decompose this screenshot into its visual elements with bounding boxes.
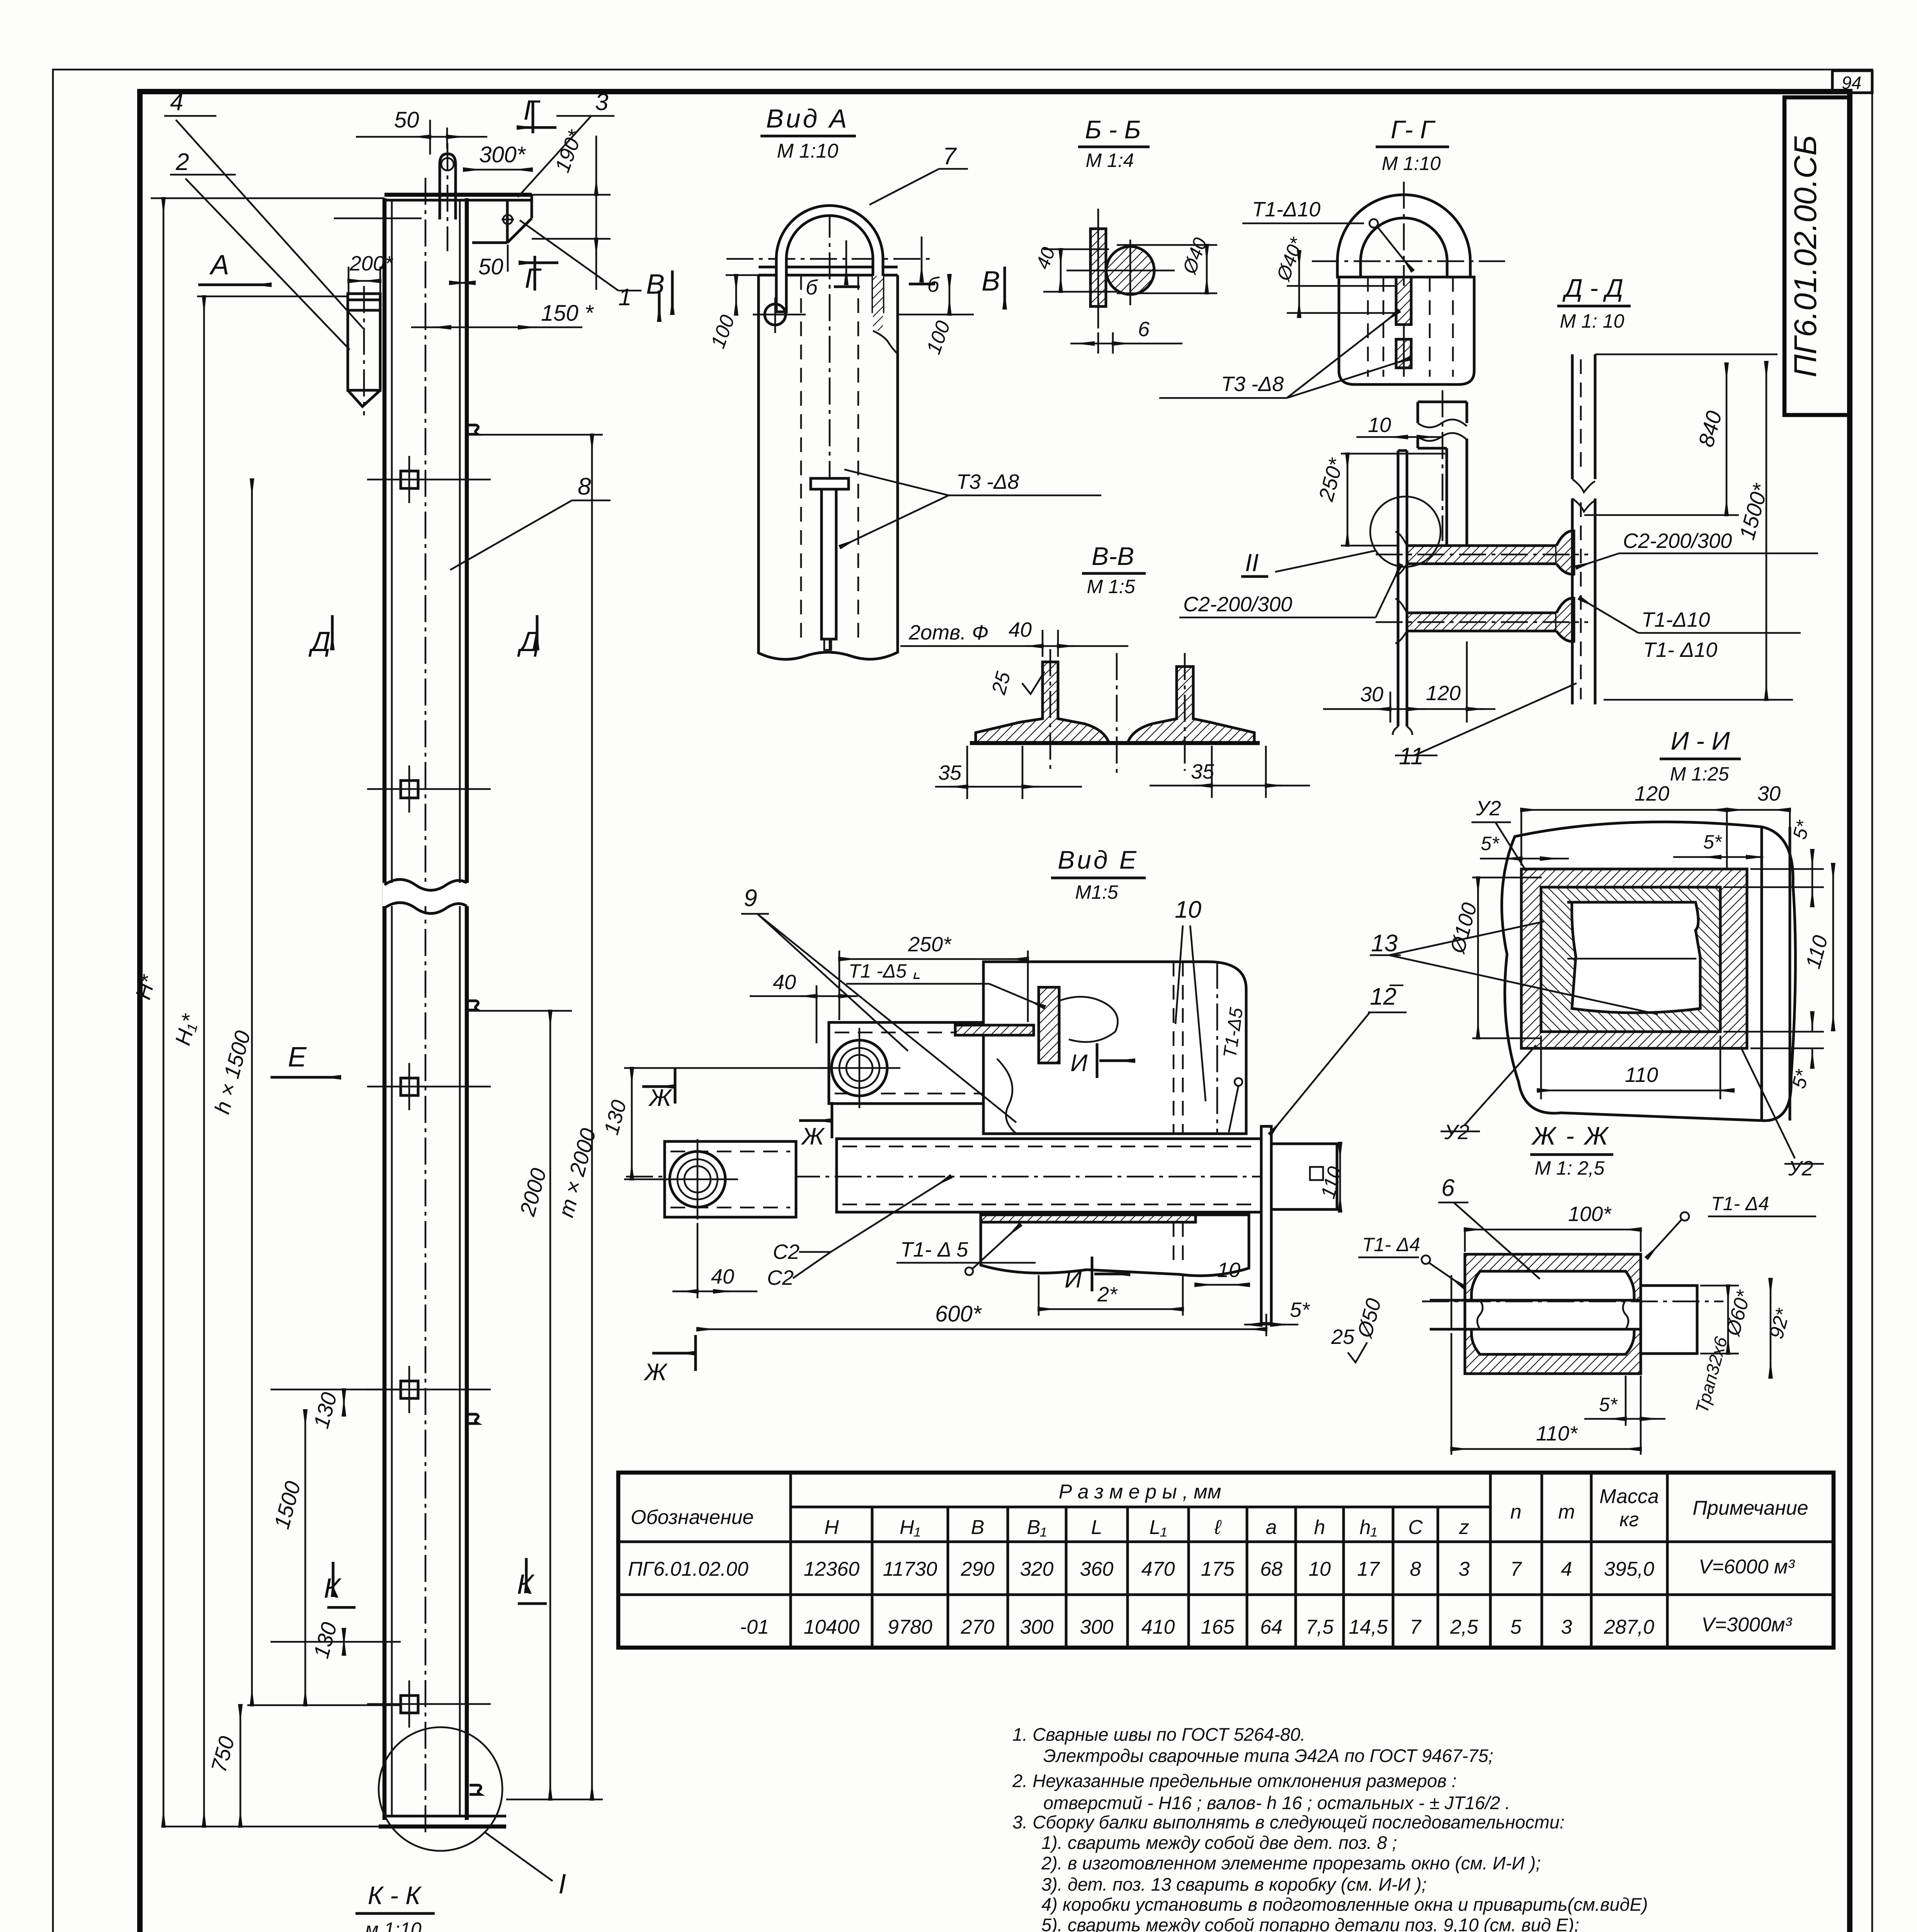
svg-text:Д - Д: Д - Д: [1562, 274, 1623, 302]
svg-text:68: 68: [1260, 1558, 1283, 1580]
svg-text:Ж: Ж: [648, 1085, 672, 1111]
svg-text:64: 64: [1260, 1616, 1283, 1638]
svg-text:1: 1: [618, 284, 631, 311]
dims: [1595, 354, 1778, 355]
svg-text:4: 4: [1561, 1558, 1572, 1580]
svg-text:Ж: Ж: [643, 1359, 668, 1386]
svg-text:470: 470: [1141, 1558, 1175, 1580]
svg-text:10: 10: [1308, 1558, 1331, 1580]
beam break (interruption): [383, 883, 469, 906]
svg-text:В: В: [971, 1516, 985, 1539]
svg-text:II: II: [1245, 549, 1259, 577]
svg-text:10: 10: [1175, 896, 1201, 923]
svg-text:600*: 600*: [935, 1301, 982, 1327]
beam bottom plate: [384, 1815, 506, 1818]
top small bracket: [1417, 402, 1419, 423]
svg-text:9780: 9780: [888, 1616, 932, 1638]
svg-text:Т1- Δ4: Т1- Δ4: [1362, 1234, 1420, 1255]
svg-text:Ж: Ж: [801, 1123, 825, 1150]
svg-text:3: 3: [1561, 1616, 1572, 1638]
svg-text:а: а: [1266, 1516, 1277, 1539]
svg-text:200*: 200*: [349, 252, 393, 275]
hole: [765, 304, 786, 325]
svg-text:h: h: [1314, 1516, 1325, 1539]
svg-text:2. Неуказанные предельные откл: 2. Неуказанные предельные отклонения раз…: [1012, 1770, 1457, 1791]
svg-text:Д: Д: [308, 626, 331, 657]
svg-text:Примечание: Примечание: [1692, 1497, 1808, 1519]
svg-text:395,0: 395,0: [1604, 1558, 1654, 1580]
svg-text:40: 40: [773, 971, 796, 994]
left stub: [1451, 1275, 1453, 1329]
dimension lines left of beam: [151, 198, 401, 1827]
svg-text:V=3000м³: V=3000м³: [1701, 1614, 1792, 1636]
svg-text:3: 3: [1459, 1558, 1470, 1580]
svg-text:Т1-Δ10: Т1-Δ10: [1252, 198, 1320, 221]
outer hatched frame: [1521, 869, 1747, 1048]
svg-text:320: 320: [1020, 1558, 1054, 1580]
svg-text:М 1:25: М 1:25: [1670, 763, 1729, 785]
svg-text:270: 270: [961, 1616, 995, 1638]
svg-text:В: В: [981, 266, 1000, 297]
svg-text:Т1-Δ10: Т1-Δ10: [1641, 608, 1710, 631]
svg-text:8: 8: [1410, 1558, 1421, 1580]
svg-text:250*: 250*: [908, 933, 952, 956]
nut body: [1465, 1254, 1641, 1374]
svg-text:6: 6: [1138, 318, 1150, 341]
svg-text:ПГ6.01.02.00.СБ: ПГ6.01.02.00.СБ: [1788, 135, 1823, 378]
svg-text:3). дет. поз. 13 сварить в кор: 3). дет. поз. 13 сварить в коробку (см. …: [1041, 1874, 1427, 1895]
hidden lines: [800, 275, 802, 641]
svg-text:Г: Г: [525, 263, 542, 294]
svg-text:25: 25: [1331, 1325, 1355, 1349]
svg-text:12360: 12360: [804, 1558, 860, 1580]
svg-text:2*: 2*: [1097, 1283, 1118, 1306]
T-bar TZ-D8: [811, 478, 849, 489]
svg-text:n: n: [1510, 1501, 1522, 1523]
right plate 12 + shaft end: [1261, 1126, 1271, 1323]
svg-text:Т3 -Δ8: Т3 -Δ8: [1221, 372, 1284, 396]
I-beam flanges: [1407, 546, 1556, 564]
svg-text:120: 120: [1635, 782, 1669, 805]
svg-text:30: 30: [1360, 683, 1383, 706]
label 7: [869, 169, 939, 205]
svg-text:б: б: [806, 276, 818, 299]
svg-text:В₁: В₁: [1027, 1516, 1046, 1539]
part 3 corner plate: [472, 195, 532, 272]
left plate: [1397, 451, 1400, 726]
svg-text:13: 13: [1371, 930, 1398, 957]
svg-text:V=6000 м³: V=6000 м³: [1699, 1556, 1795, 1578]
svg-text:120: 120: [1426, 682, 1461, 705]
svg-text:Вид А: Вид А: [766, 104, 849, 133]
lower lug: [665, 1141, 796, 1217]
svg-text:7: 7: [1510, 1558, 1522, 1580]
svg-text:м 1:10: м 1:10: [365, 1918, 422, 1932]
left rail: [976, 662, 1109, 743]
svg-text:9: 9: [744, 885, 757, 912]
right stub: [1641, 1286, 1697, 1354]
svg-text:7: 7: [1410, 1616, 1422, 1638]
lifting lug on top: [440, 143, 456, 251]
svg-text:10400: 10400: [804, 1616, 860, 1638]
svg-text:100*: 100*: [1568, 1202, 1612, 1226]
svg-text:ℓ: ℓ: [1214, 1516, 1222, 1539]
side clips on right edge: [467, 425, 481, 1794]
svg-text:С2: С2: [773, 1240, 799, 1264]
svg-text:14: 14: [263, 1929, 289, 1932]
svg-text:У2: У2: [1476, 797, 1501, 820]
page number box 94: [1832, 71, 1872, 93]
svg-text:50: 50: [394, 107, 419, 133]
svg-text:И: И: [1065, 1266, 1082, 1293]
svg-text:М 1:4: М 1:4: [1085, 150, 1134, 171]
svg-text:М1:5: М1:5: [1075, 881, 1118, 903]
svg-text:L: L: [1091, 1516, 1102, 1539]
svg-text:М 1:5: М 1:5: [1087, 576, 1135, 597]
svg-text:отверстий - Н16 ; валов- h 16: отверстий - Н16 ; валов- h 16 ; остальн…: [1043, 1793, 1510, 1813]
upper lug plate 9: [829, 1022, 1044, 1104]
svg-text:В: В: [646, 269, 665, 300]
svg-text:5: 5: [1510, 1616, 1522, 1638]
svg-text:7: 7: [943, 143, 957, 170]
svg-text:Обозначение: Обозначение: [631, 1506, 754, 1529]
svg-text:Р а з м е р ы , мм: Р а з м е р ы , мм: [1059, 1481, 1221, 1503]
svg-text:L₁: L₁: [1149, 1516, 1167, 1539]
svg-text:14,5: 14,5: [1349, 1616, 1388, 1638]
detail II circle: [1370, 497, 1441, 567]
svg-text:I: I: [558, 1869, 566, 1900]
svg-text:290: 290: [961, 1558, 995, 1580]
svg-text:5*: 5*: [1481, 833, 1500, 854]
svg-text:150 *: 150 *: [541, 301, 594, 326]
svg-text:Н₁: Н₁: [900, 1516, 920, 1539]
svg-text:5*: 5*: [1599, 1394, 1618, 1415]
svg-text:Т3 -Δ8: Т3 -Δ8: [956, 470, 1019, 493]
svg-text:Т1- Δ10: Т1- Δ10: [1643, 638, 1717, 662]
labels 1,2,3,4,8 with leaders: [164, 116, 641, 570]
svg-text:Вид Е: Вид Е: [1058, 845, 1139, 874]
svg-text:1. Сварные швы по ГОСТ 5264-80: 1. Сварные швы по ГОСТ 5264-80.: [1012, 1724, 1305, 1745]
svg-text:2отв. Ф: 2отв. Ф: [908, 621, 988, 644]
svg-text:Т1- Δ 5: Т1- Δ 5: [900, 1238, 968, 1261]
svg-text:2,5: 2,5: [1450, 1616, 1478, 1638]
svg-text:Б - Б: Б - Б: [1085, 115, 1141, 144]
svg-text:С: С: [1408, 1516, 1423, 1539]
svg-text:11: 11: [1399, 743, 1424, 770]
svg-text:-01: -01: [740, 1616, 769, 1638]
svg-text:И: И: [1070, 1050, 1088, 1077]
svg-text:С2-200/300: С2-200/300: [1183, 593, 1292, 616]
svg-text:5*: 5*: [1290, 1298, 1310, 1321]
svg-text:40: 40: [711, 1265, 734, 1288]
detail I circle: [379, 1727, 502, 1851]
beam body: [379, 178, 532, 1835]
svg-text:m: m: [1558, 1501, 1575, 1523]
svg-text:2: 2: [175, 149, 189, 175]
svg-text:360: 360: [1080, 1558, 1114, 1580]
svg-text:300*: 300*: [479, 142, 526, 167]
svg-text:410: 410: [1141, 1616, 1175, 1638]
svg-text:287,0: 287,0: [1604, 1616, 1654, 1638]
svg-text:110*: 110*: [1536, 1422, 1578, 1445]
svg-text:3: 3: [595, 89, 608, 116]
body: [759, 275, 898, 659]
svg-text:94: 94: [1842, 73, 1861, 93]
svg-text:50: 50: [478, 254, 503, 279]
svg-text:10: 10: [1217, 1259, 1240, 1282]
svg-text:М 1:10: М 1:10: [777, 140, 839, 162]
svg-text:300: 300: [1020, 1616, 1054, 1638]
svg-text:кг: кг: [1619, 1509, 1639, 1531]
svg-text:300: 300: [1080, 1616, 1114, 1638]
svg-text:4: 4: [170, 89, 183, 116]
right column: [1571, 354, 1574, 479]
loop: [1337, 195, 1470, 277]
dimension lines right of beam: [467, 435, 603, 1799]
right rail: [1128, 667, 1254, 743]
svg-text:Г- Г: Г- Г: [1391, 115, 1436, 144]
svg-text:30: 30: [1757, 782, 1781, 805]
svg-text:М 1: 10: М 1: 10: [1560, 310, 1624, 332]
svg-text:Т1- Δ4: Т1- Δ4: [1711, 1193, 1769, 1214]
svg-text:Ж - Ж: Ж - Ж: [1531, 1121, 1609, 1150]
svg-text:h₁: h₁: [1359, 1516, 1377, 1539]
svg-text:В-В: В-В: [1092, 542, 1134, 570]
vertical document number box top right: [1784, 97, 1849, 415]
svg-text:ПГ6.01.02.00: ПГ6.01.02.00: [628, 1558, 748, 1580]
svg-text:2). в изготовленном элементе п: 2). в изготовленном элементе прорезать о…: [1041, 1853, 1541, 1873]
svg-text:7,5: 7,5: [1306, 1616, 1334, 1638]
inner hatched frame: [1541, 887, 1720, 1032]
svg-text:У2: У2: [1788, 1157, 1813, 1180]
svg-text:К - К: К - К: [368, 1881, 422, 1910]
bottom block: [981, 1215, 1249, 1276]
svg-text:6: 6: [1441, 1175, 1455, 1201]
svg-text:17: 17: [1357, 1558, 1380, 1580]
svg-text:С2-200/300: С2-200/300: [1623, 529, 1732, 553]
svg-text:175: 175: [1201, 1558, 1235, 1580]
svg-text:35: 35: [938, 761, 962, 784]
svg-text:5). сварить между собой попар: 5). сварить между собой попарно детали …: [1041, 1915, 1579, 1932]
big top block 10: [983, 962, 1246, 1134]
svg-text:11730: 11730: [883, 1558, 937, 1580]
square hand holes: [367, 456, 491, 1728]
svg-text:Т1 -Δ5 ⌞: Т1 -Δ5 ⌞: [849, 960, 921, 982]
svg-text:Масса: Масса: [1599, 1485, 1659, 1508]
svg-text:1). сварить между собой две д: 1). сварить между собой две дет. поз. 8…: [1041, 1832, 1397, 1853]
svg-text:С2: С2: [767, 1266, 794, 1289]
100 dims: [898, 314, 974, 316]
svg-text:40: 40: [1009, 618, 1032, 641]
svg-text:5*: 5*: [1703, 831, 1722, 853]
svg-text:Н: Н: [824, 1516, 839, 1539]
svg-text:4) коробки установить в подгот: 4) коробки установить в подготовленные о…: [1041, 1894, 1648, 1915]
block: [1339, 277, 1474, 384]
svg-text:Е: Е: [288, 1042, 307, 1073]
svg-text:М 1: 2,5: М 1: 2,5: [1535, 1157, 1605, 1179]
svg-text:z: z: [1459, 1516, 1469, 1539]
section letter marks around beam: [209, 95, 542, 1604]
outer wavy blob: [1502, 822, 1795, 1121]
svg-text:М 1:10: М 1:10: [1382, 153, 1441, 174]
bar (shaft): [837, 1139, 1261, 1212]
svg-text:8: 8: [578, 473, 591, 500]
svg-text:3. Сборку балки выполнять в сл: 3. Сборку балки выполнять в следующей п…: [1012, 1812, 1565, 1832]
svg-text:10: 10: [1368, 413, 1391, 437]
top dims of beam: [334, 120, 611, 327]
svg-text:110: 110: [1625, 1063, 1658, 1087]
svg-text:Электроды сварочные типа Э42А: Электроды сварочные типа Э42А по ГОСТ 94…: [1043, 1745, 1493, 1766]
beam top plate: [384, 193, 532, 197]
U loop part 7: [776, 206, 883, 312]
part 2/4 bracket left: [348, 286, 380, 415]
svg-text:А: А: [209, 250, 229, 281]
svg-text:165: 165: [1201, 1616, 1235, 1638]
svg-text:И - И: И - И: [1670, 726, 1730, 755]
